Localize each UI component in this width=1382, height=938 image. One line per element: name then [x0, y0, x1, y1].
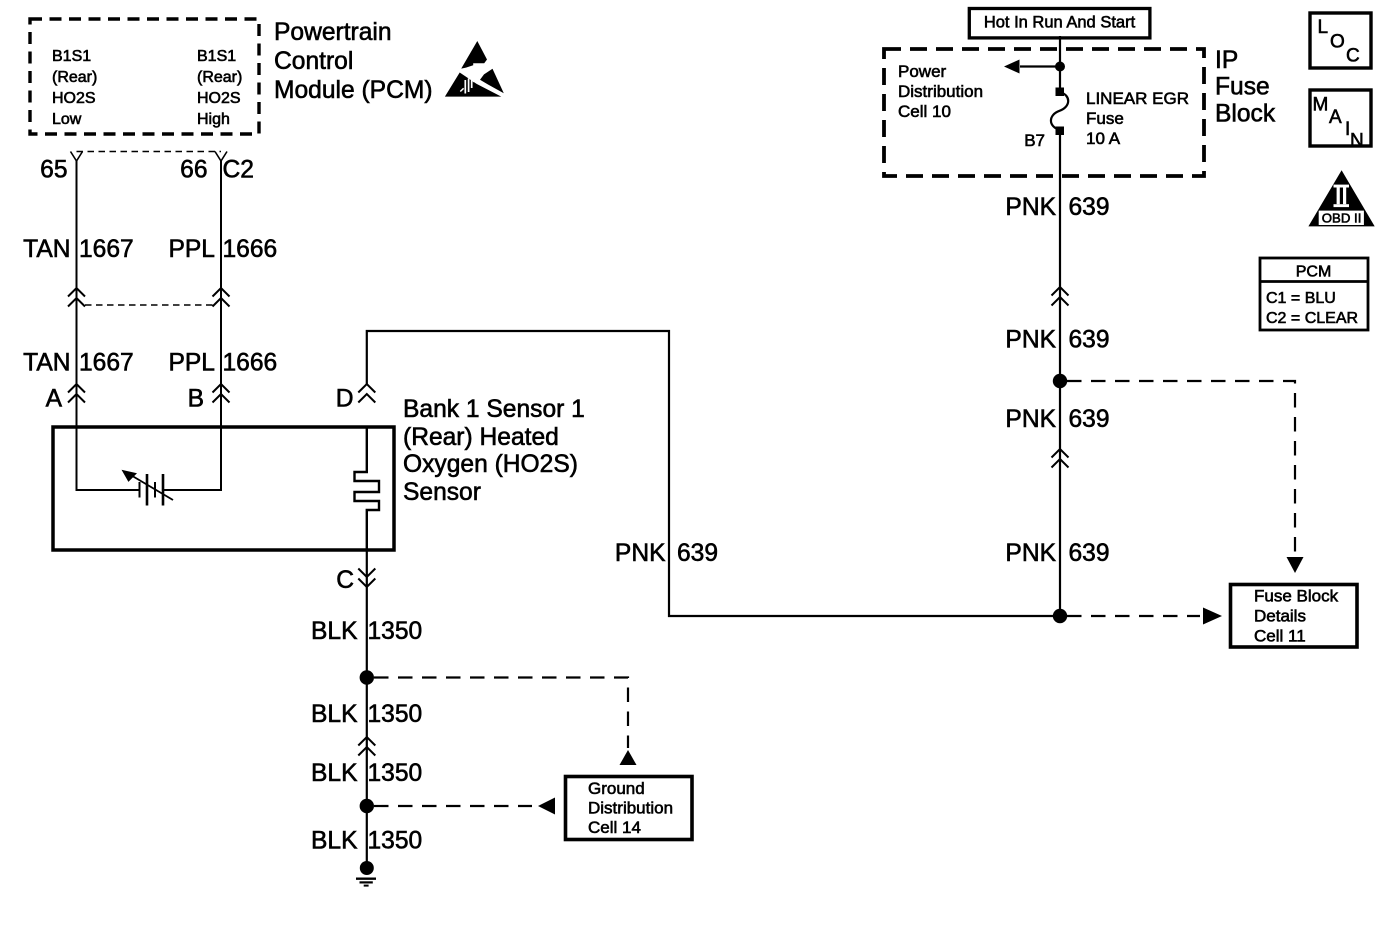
- svg-text:PNK: PNK: [615, 540, 666, 567]
- wire D (sensor to EGR fuse feed): [367, 331, 1061, 616]
- svg-text:Block: Block: [1215, 101, 1276, 128]
- svg-text:LINEAR EGR: LINEAR EGR: [1086, 89, 1189, 108]
- svg-text:1350: 1350: [368, 828, 423, 855]
- arrow down to fuse block details: [1287, 557, 1304, 573]
- junction node S1: [1053, 609, 1067, 623]
- inline connector on PNK wire (upper): [1052, 287, 1069, 306]
- OBD II symbol: [1308, 170, 1374, 226]
- svg-text:A: A: [1329, 107, 1342, 128]
- svg-text:65: 65: [40, 157, 67, 184]
- svg-text:PCM: PCM: [1296, 264, 1332, 281]
- arrow right to fuse block details: [1203, 608, 1222, 625]
- dashed reference to ground distribution (upper): [374, 678, 628, 749]
- inline connector on TAN wire: [68, 288, 85, 307]
- ground G110 symbol: [356, 861, 376, 886]
- wire B inside sensor: [163, 384, 221, 490]
- arrow to power distribution cell 10: [1020, 65, 1060, 67]
- inline connector on BLK wire: [358, 737, 375, 756]
- svg-text:639: 639: [1069, 406, 1110, 433]
- svg-text:Cell 11: Cell 11: [1254, 627, 1306, 646]
- svg-text:1667: 1667: [79, 236, 134, 263]
- svg-text:C2: C2: [223, 157, 254, 184]
- svg-text:B7: B7: [1024, 131, 1045, 150]
- variable arrow through cell: [123, 471, 174, 501]
- heater element on wire D/C: [355, 427, 380, 550]
- svg-text:(Rear): (Rear): [52, 69, 97, 86]
- svg-text:N: N: [1350, 131, 1364, 152]
- svg-text:M: M: [1313, 95, 1329, 116]
- wire from hot feed: [1059, 36, 1061, 90]
- Ground Distribution Cell 14 box: [566, 777, 693, 840]
- connector C2 dashed tie line: [77, 151, 222, 153]
- svg-text:639: 639: [677, 540, 718, 567]
- svg-text:BLK: BLK: [311, 828, 358, 855]
- svg-text:639: 639: [1069, 327, 1110, 354]
- label IP Fuse Block: [1215, 47, 1276, 128]
- svg-text:Oxygen (HO2S): Oxygen (HO2S): [403, 451, 578, 478]
- svg-text:O: O: [1330, 32, 1345, 53]
- wire BLK 1350 (sensor to ground): [366, 550, 368, 868]
- node to power distribution: [1055, 62, 1065, 72]
- arrow up into dashed path: [620, 750, 637, 765]
- svg-text:Fuse: Fuse: [1215, 74, 1270, 101]
- sensor pin D connector: [358, 384, 375, 403]
- svg-text:Distribution: Distribution: [898, 82, 983, 101]
- pin 65 Y connector: [71, 152, 83, 162]
- junction node G110: [360, 799, 374, 813]
- pin 66 Y connector: [215, 152, 227, 162]
- svg-text:PNK: PNK: [1005, 406, 1056, 433]
- wire TAN 1667 (PCM to inline connector): [76, 161, 78, 384]
- svg-text:OBD II: OBD II: [1322, 210, 1362, 225]
- PCM module box (dashed): [30, 19, 259, 134]
- junction node S2: [1053, 374, 1067, 388]
- MAIN box: [1310, 90, 1371, 152]
- sensor pin C connector: [358, 569, 375, 588]
- svg-text:Sensor: Sensor: [403, 479, 481, 506]
- svg-text:66: 66: [180, 157, 207, 184]
- svg-text:1350: 1350: [368, 760, 423, 787]
- svg-text:Control: Control: [274, 48, 353, 75]
- label B1S1 (Rear) HO2S Low: [52, 48, 97, 128]
- inline connector on PNK wire (lower): [1052, 449, 1069, 468]
- wire PPL 1666 (PCM to inline connector): [220, 161, 222, 384]
- svg-text:B1S1: B1S1: [197, 48, 236, 65]
- sensor pin A connector: [68, 384, 85, 403]
- svg-text:C2 = CLEAR: C2 = CLEAR: [1266, 310, 1358, 327]
- svg-text:B1S1: B1S1: [52, 48, 91, 65]
- svg-text:HO2S: HO2S: [52, 90, 96, 107]
- svg-text:Powertrain: Powertrain: [274, 19, 392, 46]
- svg-text:10 A: 10 A: [1086, 129, 1121, 148]
- svg-text:C1 = BLU: C1 = BLU: [1266, 290, 1336, 307]
- svg-text:BLK: BLK: [311, 618, 358, 645]
- label B1S1 (Rear) HO2S High: [197, 48, 242, 128]
- svg-text:Low: Low: [52, 111, 82, 128]
- inline connector on PPL wire: [213, 288, 230, 307]
- svg-text:PNK: PNK: [1005, 327, 1056, 354]
- sensor pin B connector: [213, 384, 230, 403]
- LOC box: [1310, 13, 1371, 68]
- svg-text:Ground: Ground: [588, 779, 645, 798]
- label Bank 1 Sensor 1 (Rear) Heated Oxygen (HO2S) Sensor: [403, 396, 585, 506]
- inline connector dashed tie line: [85, 304, 213, 306]
- svg-text:C: C: [1346, 46, 1360, 67]
- svg-text:Module (PCM): Module (PCM): [274, 77, 433, 104]
- svg-text:A: A: [46, 386, 63, 413]
- svg-text:PPL: PPL: [169, 350, 216, 377]
- svg-text:High: High: [197, 111, 230, 128]
- svg-text:BLK: BLK: [311, 701, 358, 728]
- wire PNK 639 (fuse to junction): [1059, 133, 1061, 616]
- svg-text:L: L: [1318, 17, 1329, 38]
- svg-text:1666: 1666: [223, 350, 278, 377]
- wire A inside sensor: [77, 384, 140, 490]
- Hot In Run And Start box: [969, 9, 1150, 38]
- svg-text:B: B: [188, 386, 204, 413]
- svg-text:(Rear): (Rear): [197, 69, 242, 86]
- svg-text:HO2S: HO2S: [197, 90, 241, 107]
- svg-text:PNK: PNK: [1005, 540, 1056, 567]
- svg-text:BLK: BLK: [311, 760, 358, 787]
- svg-text:Distribution: Distribution: [588, 799, 673, 818]
- label Power Distribution Cell 10: [898, 62, 983, 121]
- svg-text:C: C: [336, 567, 354, 594]
- svg-text:PPL: PPL: [169, 236, 216, 263]
- dashed reference to ground distribution (lower): [374, 805, 532, 807]
- svg-text:Fuse: Fuse: [1086, 109, 1124, 128]
- svg-text:D: D: [336, 386, 354, 413]
- label Powertrain Control Module (PCM): [274, 19, 433, 104]
- svg-text:IP: IP: [1215, 47, 1238, 74]
- svg-text:639: 639: [1069, 540, 1110, 567]
- svg-text:Cell 14: Cell 14: [588, 818, 641, 837]
- svg-text:1667: 1667: [79, 350, 134, 377]
- ESD sensitivity symbol: [445, 41, 504, 97]
- PCM connector table: [1260, 258, 1368, 330]
- svg-text:1666: 1666: [223, 236, 278, 263]
- svg-text:PNK: PNK: [1005, 194, 1056, 221]
- label LINEAR EGR Fuse 10 A: [1086, 89, 1189, 148]
- svg-text:Details: Details: [1254, 607, 1306, 626]
- svg-text:639: 639: [1069, 194, 1110, 221]
- svg-text:TAN: TAN: [23, 236, 70, 263]
- LINEAR EGR fuse 10A: [1051, 88, 1068, 136]
- Fuse Block Details Cell 11 box: [1231, 585, 1358, 648]
- svg-text:1350: 1350: [368, 618, 423, 645]
- arrow left toward wire: [538, 798, 555, 815]
- svg-text:Power: Power: [898, 62, 947, 81]
- dashed reference to fuse block details (from S1): [1067, 615, 1200, 617]
- junction node S110: [360, 670, 374, 684]
- svg-text:Hot In Run And Start: Hot In Run And Start: [984, 14, 1136, 32]
- svg-text:Bank 1 Sensor 1: Bank 1 Sensor 1: [403, 396, 585, 423]
- svg-text:(Rear) Heated: (Rear) Heated: [403, 424, 559, 451]
- dashed reference to fuse block details (from S2): [1067, 381, 1295, 552]
- svg-text:TAN: TAN: [23, 350, 70, 377]
- HO2S sensor box: [53, 427, 394, 550]
- svg-text:Cell 10: Cell 10: [898, 102, 951, 121]
- svg-text:1350: 1350: [368, 701, 423, 728]
- variable voltage cell (sensing element): [140, 474, 164, 506]
- IP fuse block box (dashed): [884, 49, 1204, 176]
- svg-text:Fuse Block: Fuse Block: [1254, 587, 1339, 606]
